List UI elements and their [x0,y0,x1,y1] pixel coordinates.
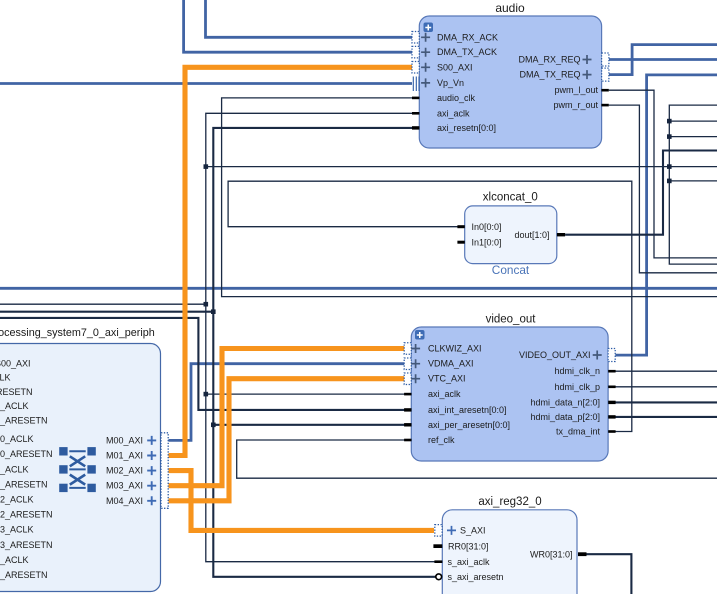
wire axi_resetn feed from left edge y311.7 (bus) [0,311,213,313]
audio interface connectors right [602,53,609,66]
wire axi_aclk branch A at y166.6 to right edge [206,166,717,168]
svg-text:audio: audio [495,1,525,15]
wire M00_AXI to VDMA_AXI blue [169,364,405,441]
crossbar icon 1 (axi interconnect switch) [59,447,96,492]
svg-text:pwm_r_out: pwm_r_out [553,100,598,110]
svg-text:M01_AXI: M01_AXI [106,451,143,461]
svg-text:dout[1:0]: dout[1:0] [514,230,549,240]
junction V1 y121.1 [667,119,672,124]
svg-text:S00_AXI: S00_AXI [0,359,31,369]
junction V1 y166.6 [667,164,672,169]
wire DMA_TX_ACK blue from top edge [184,0,412,52]
svg-text:CLKWIZ_AXI: CLKWIZ_AXI [428,344,482,354]
wire M04_AXI to VTC_AXI orange [169,379,405,501]
block xlconcat_0 [465,192,557,278]
wire axi_aclk branch to video_out.axi_aclk at y394.1 [206,393,405,395]
svg-text:axi_aclk: axi_aclk [437,108,470,118]
wire V1 branch y136.6 [669,136,717,138]
wire axi_resetn branch to video_out.axi_per_aresetn y424.8 (bus) [213,424,404,426]
svg-text:video_out: video_out [486,314,537,326]
audio port plus icons right [583,55,592,79]
axi_reg32 pin stubs [433,544,442,548]
junction aclk x205.8 y166.6 [204,164,209,169]
block processing_system7_0_axi_periph [0,327,161,592]
wire VIDEO_OUT_AXI blue up x646.6 to right edge y74.9 [615,75,717,355]
svg-text:hdmi_data_p[2:0]: hdmi_data_p[2:0] [530,412,600,422]
svg-text:Vp_Vn: Vp_Vn [437,78,464,88]
svg-text:M04_ARESETN: M04_ARESETN [0,570,48,580]
svg-text:S00_ARESETN: S00_ARESETN [0,415,48,425]
axi_reg32 s_axi_aresetn inverter circle [436,574,442,580]
wire DMA_RX_ACK blue from top edge [206,0,413,37]
svg-text:processing_system7_0_axi_perip: processing_system7_0_axi_periph [0,327,155,339]
wire axi_int_aresetn net (bus) from left edge y317.9 down x198.4 to video_out [0,318,405,410]
wire V1 branch y180.9 [669,180,717,182]
junction V1 y136.6 [667,134,672,139]
wire axi_aclk feed from left edge at y304.2 [0,303,206,305]
svg-text:DMA_RX_ACK: DMA_RX_ACK [437,32,498,42]
svg-text:M04_AXI: M04_AXI [106,496,143,506]
wire V1 branch y121.1 [669,120,717,122]
svg-text:M00_ARESETN: M00_ARESETN [0,449,53,459]
wire hdmi_clk_n [616,370,717,372]
svg-text:s_axi_aclk: s_axi_aclk [448,557,491,567]
junction aclk to video y394.1 [204,392,209,397]
video_out interface connectors left [404,343,411,355]
svg-text:axi_reg32_0: axi_reg32_0 [478,496,541,508]
svg-text:hdmi_clk_p: hdmi_clk_p [554,382,600,392]
svg-text:axi_aclk: axi_aclk [428,389,461,399]
svg-text:S_AXI: S_AXI [460,526,486,536]
svg-text:M01_ACLK: M01_ACLK [0,464,29,474]
svg-text:ACLK: ACLK [0,373,11,383]
svg-text:xlconcat_0: xlconcat_0 [483,192,538,204]
wire M02_AXI to axi_reg32 S_AXI orange [169,471,435,531]
svg-text:M04_ACLK: M04_ACLK [0,555,29,565]
axi_reg32 WR0 stub [578,552,587,556]
junction aclk feed y304.2 [204,302,209,307]
svg-text:M02_AXI: M02_AXI [106,466,143,476]
wire tx_dma_int to xlconcat In0 net [228,181,632,431]
svg-text:M03_AXI: M03_AXI [106,481,143,491]
svg-text:S00_ACLK: S00_ACLK [0,401,29,411]
svg-text:s_axi_aresetn: s_axi_aresetn [448,572,504,582]
video_out plus icon right [593,351,602,360]
svg-text:WR0[31:0]: WR0[31:0] [530,549,573,559]
svg-text:M03_ARESETN: M03_ARESETN [0,540,53,550]
svg-text:audio_clk: audio_clk [437,93,476,103]
expand button video_out [415,330,425,340]
block axi_reg32_0 [442,496,577,594]
wire xlconcat dout bus to right edge [565,151,717,235]
svg-text:axi_per_aresetn[0:0]: axi_per_aresetn[0:0] [428,420,510,430]
audio interface connectors (hatched) left [412,32,419,44]
wire audio_clk net: audio.audio_clk left-down to y296.6 then right off-screen [222,98,717,297]
svg-text:VDMA_AXI: VDMA_AXI [428,359,474,369]
axi_reg32 S_AXI interface connector [435,525,442,537]
svg-text:M00_ACLK: M00_ACLK [0,434,34,444]
wire M01_AXI to audio S00_AXI orange [169,67,413,455]
wire pwm_r_out net [609,105,717,273]
periph plus icons right [147,436,156,505]
wire clock distribution vertical V1 x669.3 with end branches [669,105,717,264]
audio pin stubs right (pwm) [601,89,608,92]
wire long blue horizontal y288.3 across full width [0,287,717,290]
svg-text:pwm_l_out: pwm_l_out [554,85,598,95]
wire M03_AXI to CLKWIZ_AXI orange [169,349,405,486]
svg-text:axi_resetn[0:0]: axi_resetn[0:0] [437,123,496,133]
wire axi_aclk net trunk: audio.axi_aclk left, down x205.8, right to axi_reg32.s_axi_aclk [206,113,435,561]
xlconcat pin stubs [457,225,464,228]
video_out interface connector right [608,349,615,362]
svg-text:M01_ARESETN: M01_ARESETN [0,479,48,489]
svg-text:M02_ARESETN: M02_ARESETN [0,510,53,520]
wire ref_clk net: video_out.ref_clk left, down x236.7, right off-screen at y478.2 [237,440,717,478]
expand button audio [424,23,434,33]
wire hdmi_data_n bus [616,401,717,403]
svg-text:ARESETN: ARESETN [0,387,33,397]
svg-text:DMA_RX_REQ: DMA_RX_REQ [518,55,580,65]
wire hdmi_clk_p [616,386,717,388]
junction resetn feed y311.7 [211,309,216,314]
svg-text:tx_dma_int: tx_dma_int [556,427,601,437]
wire DMA_RX_REQ blue to right edge [609,58,717,61]
periph interface connectors right (M00-M04) [161,433,168,509]
wire pwm_l_out net [609,90,717,258]
wire DMA_TX_REQ blue up and right [609,45,717,75]
video_out plus icons left [411,344,420,383]
wire hdmi_data_p bus [616,416,717,418]
video_out pin stubs right [608,370,615,373]
svg-text:hdmi_data_n[2:0]: hdmi_data_n[2:0] [530,397,600,407]
svg-text:DMA_TX_ACK: DMA_TX_ACK [437,47,497,57]
svg-text:VTC_AXI: VTC_AXI [428,374,466,384]
svg-text:ref_clk: ref_clk [428,435,455,445]
svg-text:hdmi_clk_n: hdmi_clk_n [554,366,600,376]
axi_reg32 S_AXI plus icon (inside) [447,526,456,535]
svg-text:In0[0:0]: In0[0:0] [472,222,502,232]
wire Vp_Vn blue from left edge [0,82,412,85]
svg-text:M03_ACLK: M03_ACLK [0,525,34,535]
junction resetn to video y424.8 [211,423,216,428]
block video_out [411,314,608,462]
audio pin stubs left [412,97,419,100]
svg-text:axi_int_aresetn[0:0]: axi_int_aresetn[0:0] [428,405,507,415]
svg-text:M00_AXI: M00_AXI [106,435,143,445]
wire WR0 bus from axi_reg32 down to bottom edge [586,554,631,594]
svg-text:S00_AXI: S00_AXI [437,62,473,72]
junction V1 y180.9 [667,179,672,184]
svg-text:M02_ACLK: M02_ACLK [0,495,34,505]
video_out pin stubs left [404,393,411,396]
block audio [419,1,601,148]
svg-text:Concat: Concat [492,263,530,277]
audio port plus icons left [421,33,430,88]
wire axi_resetn net trunk (bus): audio.axi_resetn left, down x213.3, right to axi_reg32.s_axi_aresetn [213,128,435,577]
svg-text:In1[0:0]: In1[0:0] [472,237,502,247]
svg-text:VIDEO_OUT_AXI: VIDEO_OUT_AXI [519,350,591,360]
svg-text:RR0[31:0]: RR0[31:0] [448,542,489,552]
svg-text:DMA_TX_REQ: DMA_TX_REQ [519,70,580,80]
